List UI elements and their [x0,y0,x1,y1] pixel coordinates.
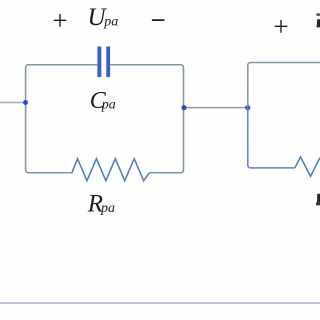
label: minus (left block negative) [152,19,165,21]
svg-text:+: + [273,12,288,42]
label: U (partial, right block, cut at edge): top serif dash [316,13,320,15]
wire: right block left side upper + top run [248,63,320,108]
capacitor C_pa plates [97,47,110,78]
svg-text:+: + [52,6,67,36]
wire: right block left side lower + bottom run [248,108,295,168]
resistor (partial, right block) zigzag [295,157,320,176]
label: R (partial) foot [316,202,320,205]
wire: input lead left [0,102,26,104]
label: U (partial) left stem [317,19,320,27]
svg-text:pa: pa [103,14,118,29]
wire: left block bottom-right + right side + top run to capacitor [110,65,183,173]
svg-text:pa: pa [100,201,115,216]
wire: bottom border line [0,302,320,304]
svg-text:pa: pa [101,97,116,112]
wire: middle connecting wire [184,107,248,109]
node: middle-right junction dot [245,105,250,110]
resistor R_pa zigzag [72,159,149,181]
wire: left block left side + top-left run to capacitor [26,65,98,173]
node: middle-left junction dot [181,105,186,110]
node: left junction dot [23,100,28,105]
label: R (partial, right block resistor, cut at edge): stem [317,194,320,203]
